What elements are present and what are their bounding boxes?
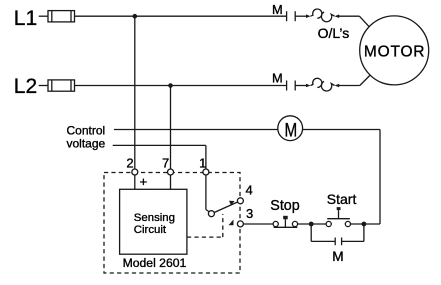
svg-text:M: M xyxy=(285,119,298,141)
svg-text:MOTOR: MOTOR xyxy=(364,44,425,61)
svg-text:Circuit: Circuit xyxy=(134,224,167,236)
svg-text:3: 3 xyxy=(246,206,253,221)
svg-text:Start: Start xyxy=(327,191,357,207)
svg-text:2: 2 xyxy=(126,155,133,170)
svg-text:4: 4 xyxy=(246,183,253,198)
svg-text:Model 2601: Model 2601 xyxy=(123,256,187,270)
svg-text:M: M xyxy=(272,2,283,17)
svg-text:M: M xyxy=(332,249,343,264)
svg-text:7: 7 xyxy=(162,155,169,170)
svg-text:Control: Control xyxy=(67,124,106,138)
svg-text:1: 1 xyxy=(199,155,206,170)
svg-text:Stop: Stop xyxy=(270,198,299,214)
svg-text:L1: L1 xyxy=(14,7,37,30)
svg-text:+: + xyxy=(140,174,148,189)
svg-text:L2: L2 xyxy=(14,75,37,98)
svg-text:voltage: voltage xyxy=(67,137,106,151)
svg-text:Sensing: Sensing xyxy=(134,212,175,224)
svg-text:O/L’s: O/L’s xyxy=(318,25,350,41)
svg-text:M: M xyxy=(272,71,283,86)
